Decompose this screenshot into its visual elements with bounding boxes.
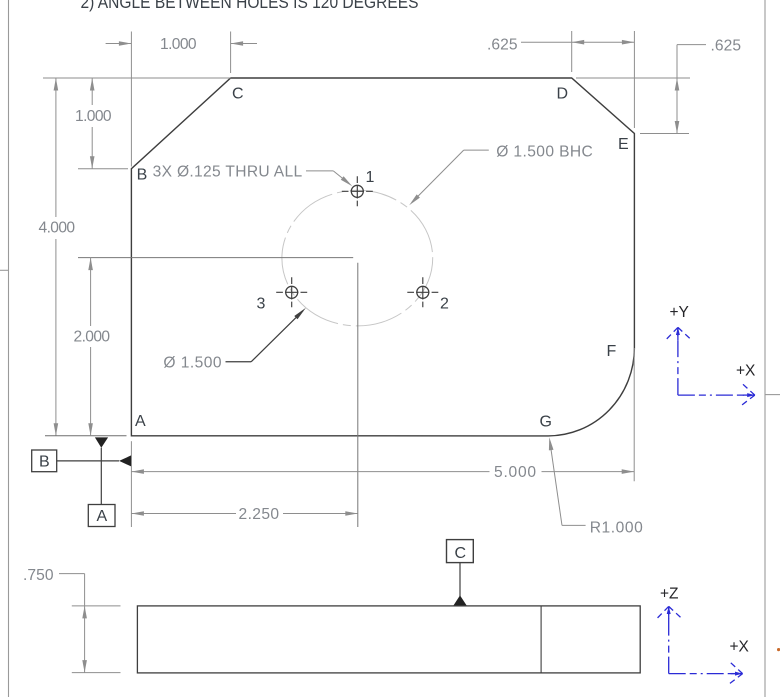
side view box [137, 606, 640, 673]
side view tangent edge line [540, 606, 542, 673]
svg-text:.750: .750 [23, 567, 54, 584]
svg-text:4.000: 4.000 [39, 220, 76, 237]
dimension 1.000 left vertical [43, 78, 231, 169]
svg-text:Ø 1.500: Ø 1.500 [163, 355, 222, 372]
dimension .750 side view [59, 574, 121, 673]
svg-text:+X: +X [730, 639, 750, 656]
svg-text:2.000: 2.000 [74, 329, 111, 346]
datum B [32, 450, 131, 472]
leader diameter 1.500 BHC (gray) [412, 150, 489, 202]
svg-text:2: 2 [440, 296, 449, 313]
svg-text:A: A [135, 413, 146, 430]
svg-text:A: A [97, 508, 108, 525]
svg-text:2.250: 2.250 [239, 506, 280, 523]
axes +Y +X (main view) [665, 327, 755, 406]
hole 1 [342, 176, 373, 206]
sheet border left [0, 0, 9, 697]
dimension 4.000 left [55, 78, 57, 436]
svg-text:B: B [39, 454, 50, 471]
svg-text:+Z: +Z [660, 586, 679, 603]
svg-text:B: B [137, 167, 148, 184]
dimension 2.000 left [0, 0, 1, 1]
svg-text:1: 1 [366, 169, 375, 186]
leader diameter 1.500 (dark) [226, 311, 304, 362]
bolt hole circle BHC (dash-dot) [282, 190, 433, 326]
dimension 1.000 top chamfer [106, 32, 257, 167]
svg-text:G: G [540, 414, 552, 431]
svg-text:E: E [618, 136, 629, 153]
axes +Z +X (side view) [656, 606, 743, 685]
svg-text:+Y: +Y [670, 304, 689, 321]
svg-text:3: 3 [257, 296, 266, 313]
svg-text:1.000: 1.000 [160, 36, 197, 53]
leader 3X .125 THRU ALL [306, 171, 349, 184]
leader R1.000 [550, 441, 586, 525]
svg-text:Ø 1.500 BHC: Ø 1.500 BHC [496, 143, 593, 160]
svg-text:.625: .625 [711, 37, 742, 54]
datum C [447, 540, 474, 606]
hole 2 [407, 277, 438, 307]
svg-text:D: D [557, 86, 569, 103]
svg-text:F: F [607, 343, 617, 360]
svg-text:R1.000: R1.000 [590, 519, 644, 536]
dimension 5.000 bottom [131, 348, 634, 481]
hole 3 [276, 277, 307, 307]
svg-text:C: C [232, 86, 244, 103]
dimension .625 top right [521, 31, 634, 128]
svg-text:1.000: 1.000 [75, 108, 112, 125]
svg-text:.625: .625 [487, 36, 518, 53]
svg-text:C: C [455, 545, 467, 562]
plate outline A-B-C-D-E-F-G [131, 78, 634, 436]
dimension .625 right vertical [576, 45, 706, 134]
svg-text:5.000: 5.000 [494, 464, 537, 481]
dimension 2.250 bottom [130, 441, 132, 527]
sheet border right [765, 0, 780, 697]
svg-text:2) ANGLE BETWEEN HOLES IS 120: 2) ANGLE BETWEEN HOLES IS 120 DEGREES [81, 0, 419, 12]
svg-text:3X Ø.125 THRU ALL: 3X Ø.125 THRU ALL [153, 164, 303, 181]
datum A [88, 437, 115, 526]
svg-text:+X: +X [736, 363, 756, 380]
